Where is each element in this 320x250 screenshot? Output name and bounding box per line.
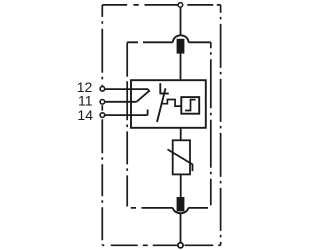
plug-in disconnect contact top: arc	[173, 35, 189, 42]
terminal 14 (circle)	[100, 113, 105, 118]
thermal disconnector: contact bar	[160, 93, 169, 95]
terminal 12 (circle)	[100, 87, 105, 92]
varistor RV1: body	[173, 140, 190, 174]
wire terminal 14 to fixed contact	[105, 114, 148, 116]
wire from bottom arc to bottom terminal	[180, 214, 182, 245]
varistor RV1: diagonal stroke with tail	[168, 149, 193, 171]
outer device boundary (dash-dot box), top edge	[102, 4, 220, 6]
wire terminal 12 to fixed contact	[105, 88, 148, 90]
wire terminal 11 to movable arm	[105, 101, 137, 103]
terminal 11 (circle)	[100, 100, 105, 105]
outer device boundary, right edge	[220, 5, 222, 245]
plug-in disconnect contact bottom: arc	[173, 208, 189, 213]
fixed contact 14 stub	[147, 110, 149, 116]
inner module boundary, right edge	[210, 42, 212, 208]
remote-signalling contact box U1	[131, 80, 206, 128]
inner module boundary, left edge	[126, 42, 128, 206]
svg-text:14: 14	[77, 107, 93, 123]
terminal top (circle)	[178, 3, 183, 8]
plug-in disconnect contact bottom: pin (black rectangle)	[177, 197, 185, 211]
inner module boundary, bottom edge left of plug contact	[127, 207, 173, 209]
inner module boundary, top edge right of plug contact	[189, 41, 211, 43]
outer device boundary, bottom edge	[102, 244, 220, 246]
mechanical link from disconnector to surge indicator	[161, 100, 181, 107]
wire from contact box to varistor	[180, 128, 182, 141]
surge-pulse indicator box	[181, 97, 199, 114]
wire from top terminal down to plug contact arc	[180, 5, 182, 36]
thermal disconnector: switch blade	[157, 88, 166, 122]
changeover contact movable arm (11 to 12)	[137, 92, 149, 102]
plug-in disconnect contact top: pin (black rectangle)	[177, 39, 185, 54]
terminal bottom (circle)	[178, 243, 183, 248]
thermal disconnector: wire stub	[159, 83, 161, 93]
fixed contact 12 hook	[148, 89, 150, 92]
surge-pulse indicator: step waveform	[185, 100, 196, 111]
inner module boundary, bottom edge right of plug contact	[188, 207, 208, 209]
inner module boundary (dash-dot box), top edge left of plug contact	[127, 41, 173, 43]
wire from varistor to bottom plug pin	[180, 174, 182, 197]
wire from top plug pin to signalling-contact box	[180, 53, 182, 80]
outer device boundary, left edge	[101, 5, 103, 245]
